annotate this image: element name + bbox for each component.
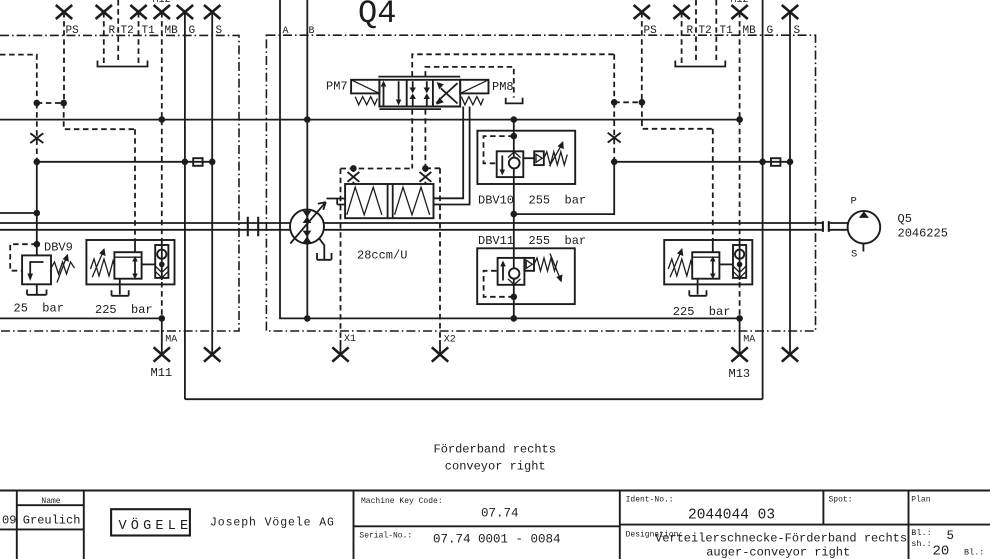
- relief 225bar (right) spring: [668, 259, 692, 276]
- junction node S right (790,161.8): [787, 159, 794, 166]
- svg-text:2046225: 2046225: [898, 227, 948, 241]
- wire G left vertical down to bottom box: [184, 12, 186, 399]
- relief 225bar (left) main stage square: [114, 252, 141, 279]
- title block top border: [0, 490, 990, 492]
- pilot wire dashed from left sheet edge: [0, 55, 37, 103]
- svg-text:auger-conveyor right: auger-conveyor right: [706, 546, 850, 559]
- wire port from sheet edge to DBV9 line: [0, 212, 37, 214]
- svg-text:VÖGELE: VÖGELE: [119, 519, 193, 534]
- relief valve DBV9 arrow: [27, 262, 43, 281]
- drain symbol DBV9: [27, 284, 47, 295]
- svg-text:R: R: [687, 25, 694, 37]
- junction node pilot right (425.4,168.4): [422, 165, 429, 172]
- drive shaft stub into pump Q5: [829, 223, 848, 230]
- wire X1 stem solid: [340, 340, 342, 355]
- relief cartridge block 225bar (right) outer box: [664, 240, 752, 284]
- pilot wire dashed PS down then right to relief feed: [64, 103, 135, 129]
- svg-text:A: A: [283, 26, 289, 37]
- wire connector main stage to check (right): [719, 263, 733, 265]
- test coupling M13: [731, 347, 747, 361]
- spring DBV10: [544, 152, 568, 165]
- pilot wire dashed with plug (36.8 down): [36, 103, 38, 162]
- test coupling T2 line (left, coupling cut off above): [117, 0, 119, 63]
- junction node (614.2,161.8): [611, 159, 618, 166]
- svg-text:R: R: [109, 25, 116, 37]
- servo spring right: [395, 187, 430, 215]
- svg-text:28ccm/U: 28ccm/U: [357, 249, 407, 263]
- svg-text:Spot:: Spot:: [829, 496, 853, 505]
- junction node (63.7,103): [60, 100, 67, 107]
- svg-text:M11: M11: [151, 366, 173, 380]
- test coupling PS (left): [56, 5, 72, 103]
- wire gauge rail right (y=161.8): [614, 161, 790, 163]
- svg-text:PS: PS: [644, 25, 658, 37]
- pump Q5 circle: [848, 211, 881, 244]
- svg-text:S: S: [216, 25, 223, 37]
- svg-text:2044044 03: 2044044 03: [688, 508, 775, 524]
- drain symbol 225bar (left): [112, 279, 129, 296]
- svg-text:T1: T1: [720, 25, 734, 37]
- svg-text:Ident-No.:: Ident-No.:: [626, 496, 674, 505]
- wire S left vertical: [211, 12, 213, 355]
- junction node rail4 (513.8,318.4): [511, 315, 518, 322]
- check valve (right) seat chevrons: [733, 266, 746, 278]
- valve center position closed ports: [410, 81, 431, 105]
- servo cylinder body: [345, 184, 433, 218]
- wire rail1 supply (y=119.6): [0, 119, 740, 121]
- svg-text:S: S: [794, 25, 801, 37]
- check valve (right) pilot ball node: [737, 262, 743, 268]
- svg-text:T1: T1: [142, 25, 156, 37]
- solenoid PM7: [351, 80, 379, 94]
- svg-text:225 bar: 225 bar: [673, 305, 731, 319]
- title block vertical borders: [17, 491, 909, 559]
- svg-text:20: 20: [933, 544, 950, 559]
- junction node (36.8,103): [34, 100, 41, 107]
- wire G right vertical (coupling cut above): [762, 0, 764, 399]
- wire S right vertical: [789, 12, 791, 355]
- pump Q5 flow triangle: [859, 211, 869, 218]
- valve bottom rail line: [379, 108, 441, 110]
- spring PM8: [461, 97, 483, 105]
- svg-text:DBV10: DBV10: [478, 194, 514, 208]
- enclosure left pump section (dash-dot boundary): [0, 35, 239, 331]
- wire connector main stage to check (left): [142, 263, 156, 265]
- test coupling S bottom (left): [204, 347, 220, 361]
- wire MB left through check valve: [161, 243, 163, 280]
- check valve (left) seat chevrons: [155, 266, 168, 278]
- orifice fitting X right chamber: [420, 168, 432, 184]
- relief valve DBV10 main square: [497, 151, 524, 177]
- svg-text:S: S: [851, 249, 857, 261]
- junction node (36.8,244.2): [34, 241, 41, 248]
- junction node rail4 right end (739.6,318.4): [736, 315, 743, 322]
- wire gauge rail left (y=161.8): [37, 161, 212, 163]
- wire DBV10 out to gauge chain: [513, 177, 515, 214]
- relief valve DBV10 outer box: [477, 131, 575, 184]
- orifice on gauge rail (left): [193, 158, 202, 166]
- test coupling T1 line (right, cut): [715, 0, 717, 63]
- test coupling X1: [332, 347, 348, 361]
- test coupling S (right): [782, 5, 798, 19]
- relief 225bar (right) double arrow: [710, 256, 716, 279]
- test coupling M11: [154, 347, 170, 361]
- pump Q5 suction stub: [862, 244, 864, 252]
- plugged ports bracket R/T2/T1 (right): [675, 61, 725, 67]
- valve top rail line: [378, 76, 460, 78]
- check valve (right) housing: [733, 245, 746, 278]
- spring PM7: [355, 97, 377, 105]
- drain symbol 225bar (right): [689, 279, 706, 296]
- wire DBV11 out: [513, 285, 515, 319]
- orifice fitting X left chamber: [348, 168, 360, 184]
- junction node MB rail1 (161.8,119.6): [159, 116, 166, 123]
- plug fitting X on pilot line (left): [30, 133, 43, 143]
- relief valve DBV9 adjust arrow: [57, 254, 69, 283]
- adjust arrow DBV11: [550, 254, 563, 283]
- vent bracket under PM8: [506, 98, 523, 104]
- svg-text:Q5: Q5: [898, 212, 912, 226]
- junction node (641.9,102.3): [639, 99, 646, 106]
- relief valve DBV11 ball and seat: [508, 268, 521, 284]
- test coupling R (left): [96, 5, 112, 63]
- svg-text:Q4: Q4: [358, 0, 396, 32]
- junction node MB right rail1 (739.6,119.6): [736, 116, 743, 123]
- svg-text:MB: MB: [165, 25, 179, 37]
- test coupling G (left): [177, 5, 193, 19]
- wire work line A: [280, 0, 740, 318]
- svg-text:DBV9: DBV9: [44, 241, 73, 255]
- relief 225bar (right) adjust arrow: [670, 248, 683, 277]
- pilot wire dashed feed into 225bar valve (right): [712, 129, 714, 240]
- junction node pilot left (353.4,168.4): [350, 165, 357, 172]
- wire rail4 left segment (y=318.4): [0, 317, 162, 319]
- pump control rod linkage: [327, 199, 346, 205]
- check valve (left) pilot ball node: [159, 262, 165, 268]
- test coupling MB (right): [731, 5, 747, 120]
- svg-text:25 bar: 25 bar: [14, 302, 64, 316]
- svg-text:T2: T2: [121, 25, 134, 37]
- logo box VOEGELE: [111, 509, 190, 535]
- junction node rail1 DBV (513.8,119.6): [511, 116, 518, 123]
- plugged ports bracket R/T2/T1 (left): [98, 61, 148, 67]
- svg-text:X1: X1: [344, 334, 356, 345]
- svg-text:5: 5: [947, 529, 955, 543]
- drive shaft double line right segment: [324, 223, 822, 230]
- relief valve DBV11 arrow: [500, 261, 506, 281]
- junction node B rail1 (307.3,119.6): [304, 116, 311, 123]
- wire DBV11 internal: [513, 258, 515, 285]
- relief valve DBV10 ball and seat: [508, 152, 521, 169]
- svg-text:225 bar: 225 bar: [95, 303, 153, 317]
- shaft coupling bars (left): [248, 217, 258, 237]
- junction node G (184.9,161.8): [182, 159, 189, 166]
- wire DBV drain to right gauge rail: [514, 162, 614, 214]
- svg-text:Bl.:: Bl.:: [911, 528, 931, 538]
- pilot wire dashed DBV9: [10, 244, 37, 271]
- junction node (36.8,161.8): [34, 159, 41, 166]
- plug fitting X on pilot line (right): [608, 133, 621, 143]
- relief 225bar (right) main stage square: [692, 252, 719, 279]
- svg-text:07.74: 07.74: [481, 507, 519, 521]
- svg-text:07.74 0001 - 0084: 07.74 0001 - 0084: [433, 533, 561, 547]
- shaft coupling bars (right, to Q5): [823, 221, 829, 232]
- solenoid PM8: [460, 80, 488, 94]
- pump case drain symbol: [317, 253, 332, 260]
- svg-text:X2: X2: [444, 335, 456, 346]
- wire M11 stem: [161, 318, 163, 354]
- drive shaft double line left segment: [0, 223, 290, 230]
- svg-text:Greulich: Greulich: [23, 514, 81, 528]
- svg-text:PM7: PM7: [326, 80, 348, 94]
- pilot wire dashed with plug (614.2 down): [613, 102, 615, 162]
- test coupling MB (left): [154, 5, 170, 120]
- pilot wire dashed to PS (right): [614, 101, 642, 103]
- pump flow triangles bottom: [303, 231, 312, 243]
- svg-text:PM8: PM8: [492, 80, 514, 94]
- svg-text:DBV11: DBV11: [478, 234, 514, 248]
- junction node DBV11 pilot (513.8,296.8): [511, 294, 518, 301]
- svg-text:MA: MA: [165, 335, 177, 346]
- test coupling R (right): [673, 5, 689, 63]
- wire MB right dashed segments: [739, 120, 741, 319]
- relief valve DBV9 body: [22, 255, 51, 284]
- spring DBV11: [534, 258, 558, 271]
- pilot wire dashed envelope top left: [341, 168, 413, 170]
- relief valve DBV9 spring: [51, 262, 75, 274]
- svg-text:G: G: [189, 25, 196, 37]
- test coupling T1 (left): [130, 5, 146, 63]
- pump flow triangles top: [303, 211, 312, 223]
- test coupling S bottom (right): [782, 347, 798, 361]
- svg-text:PS: PS: [66, 25, 80, 37]
- servo piston: [388, 184, 393, 218]
- pilot wire dashed to PS chain: [37, 102, 64, 104]
- relief 225bar (left) spring: [91, 259, 115, 276]
- test coupling T2 line (right, cut): [695, 0, 697, 63]
- svg-text:MA: MA: [743, 335, 755, 346]
- pilot wire dashed X2 drop: [439, 168, 441, 340]
- relief valve DBV11 outer box: [477, 248, 575, 304]
- junction node (36.8,213): [34, 210, 41, 217]
- wire valve work ports to servo chamber (double): [434, 107, 470, 205]
- wire work line B through pump: [306, 0, 308, 318]
- relief cartridge block 225bar (left) outer box: [86, 240, 174, 284]
- wire feed inside 225bar (left): [134, 240, 136, 252]
- pilot wire dashed X1 drop: [340, 169, 342, 341]
- enclosure Q4 (dash-dot boundary): [266, 35, 815, 331]
- svg-text:M13: M13: [729, 367, 751, 381]
- relief 225bar (left) adjust arrow: [92, 248, 105, 277]
- relief 225bar (left) double arrow: [132, 256, 138, 279]
- svg-text:Verteilerschnecke-Förderband r: Verteilerschnecke-Förderband rechts: [655, 532, 907, 546]
- relief valve DBV10 pilot poppet box: [523, 151, 544, 165]
- title block row lines: [0, 505, 990, 529]
- relief valve DBV11 main square: [498, 258, 525, 285]
- wire bottom G interconnect box: [185, 398, 763, 400]
- svg-text:Bl.:: Bl.:: [964, 548, 984, 558]
- relief valve DBV10 arrow: [500, 156, 506, 176]
- svg-text:T2: T2: [699, 25, 712, 37]
- wire DBV11 feed: [513, 214, 515, 258]
- svg-text:Machine Key Code:: Machine Key Code:: [361, 497, 443, 506]
- svg-text:255 bar: 255 bar: [529, 194, 587, 208]
- pilot wire dashed chain corner (right): [613, 54, 615, 102]
- orifice on gauge rail (right): [771, 158, 780, 166]
- pump variable arrow: [290, 202, 326, 243]
- pilot wire dashed DBV10: [484, 136, 514, 163]
- junction node MB bottom (161.8,318.4): [159, 315, 166, 322]
- junction node (614.2,102.3): [611, 99, 618, 106]
- test coupling PS (right): [634, 5, 650, 102]
- svg-text:Plan: Plan: [911, 496, 930, 505]
- pilot wire dashed envelope top right: [425, 167, 440, 169]
- pump case drain wire: [319, 239, 324, 253]
- junction node S (212.2,161.8): [209, 159, 216, 166]
- valve PM7/PM8 body: [379, 80, 460, 107]
- test coupling S (left): [204, 5, 220, 19]
- adjust arrow DBV10: [550, 141, 564, 166]
- svg-text:Förderband rechts: Förderband rechts: [434, 443, 556, 457]
- svg-text:Serial-No.:: Serial-No.:: [359, 532, 412, 541]
- junction node G right (762.6,161.8): [759, 159, 766, 166]
- svg-text:B: B: [309, 26, 315, 37]
- svg-text:MB: MB: [743, 25, 757, 37]
- svg-text:G: G: [767, 25, 774, 37]
- junction node DBV10 pilot (513.8,136.1): [511, 133, 518, 140]
- pilot wire dashed PS down to relief feed (right): [642, 102, 713, 129]
- wire feed inside 225bar (right): [712, 240, 714, 252]
- check valve (right) ball: [735, 250, 744, 259]
- wire DBV10 internal: [513, 151, 515, 177]
- valve right position crossed arrows: [436, 82, 457, 105]
- wire DBV10 feed: [513, 120, 515, 152]
- svg-text:sh.:: sh.:: [911, 539, 931, 549]
- pilot wire dashed valve to servo right: [424, 109, 426, 168]
- servo spring left: [347, 187, 382, 215]
- svg-text:Joseph Vögele AG: Joseph Vögele AG: [210, 517, 335, 530]
- pilot wire dashed DBV11: [484, 271, 514, 297]
- junction node (513.8,214.1): [511, 211, 518, 218]
- wire X2 stem solid: [439, 340, 441, 355]
- pump Q4 circle: [290, 210, 324, 244]
- pilot wire dashed valve port to vent: [425, 67, 513, 98]
- svg-text:Name: Name: [41, 497, 60, 506]
- junction node B rail4 (307.3,318.4): [304, 315, 311, 322]
- wire M13 stem: [739, 318, 741, 354]
- wire DBV9 supply vertical: [36, 162, 38, 256]
- check valve (left) ball: [157, 250, 166, 259]
- test coupling X2: [432, 347, 448, 361]
- svg-text:09: 09: [2, 514, 16, 528]
- valve left position arrows: [381, 81, 402, 106]
- pilot wire dashed valve port to right block: [412, 54, 614, 76]
- check valve (left) housing: [155, 245, 168, 278]
- pilot wire dashed valve to servo left: [411, 109, 413, 168]
- relief valve DBV11 pilot poppet box: [524, 258, 534, 271]
- wire MB right through check valve: [739, 243, 741, 280]
- svg-text:conveyor right: conveyor right: [445, 460, 546, 474]
- wire B through pump: [306, 210, 308, 244]
- pilot wire dashed feed into 225bar valve (left): [134, 129, 136, 240]
- svg-text:P: P: [851, 196, 857, 208]
- svg-text:255 bar: 255 bar: [529, 234, 587, 248]
- wire MB left dashed segments: [161, 120, 163, 319]
